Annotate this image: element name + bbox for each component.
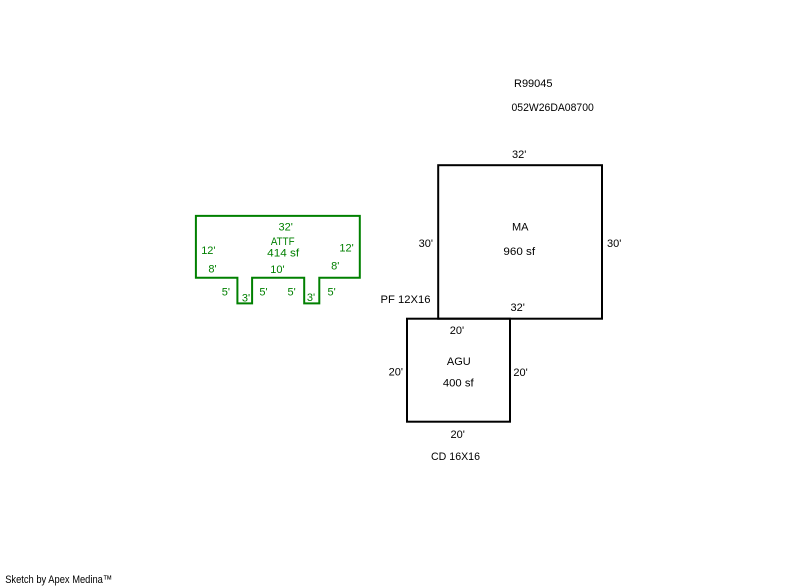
svg-text:Sketch by Apex Medina™: Sketch by Apex Medina™ (5, 574, 112, 586)
svg-text:3': 3' (307, 292, 315, 304)
svg-text:8': 8' (331, 261, 339, 273)
svg-text:20': 20' (389, 366, 403, 378)
svg-text:ATTF: ATTF (271, 236, 295, 248)
svg-text:30': 30' (419, 238, 433, 250)
svg-text:5': 5' (222, 286, 230, 298)
svg-text:32': 32' (511, 302, 525, 314)
svg-text:400 sf: 400 sf (443, 377, 475, 389)
svg-text:MA: MA (512, 222, 529, 234)
ATTF building outline (comb shape with two bottom tabs) (196, 216, 360, 304)
svg-text:5': 5' (288, 286, 296, 298)
svg-text:CD 16X16: CD 16X16 (431, 451, 480, 463)
svg-text:960 sf: 960 sf (503, 246, 536, 258)
svg-text:PF 12X16: PF 12X16 (381, 294, 431, 306)
svg-text:R99045: R99045 (514, 78, 553, 90)
svg-text:414 sf: 414 sf (267, 247, 300, 259)
svg-text:20': 20' (513, 367, 527, 379)
svg-text:30': 30' (607, 238, 621, 250)
svg-text:20': 20' (450, 325, 464, 337)
svg-text:12': 12' (339, 243, 353, 255)
AGU building outline (407, 319, 510, 422)
svg-text:12': 12' (201, 245, 215, 257)
svg-text:3': 3' (242, 292, 250, 304)
svg-text:052W26DA08700: 052W26DA08700 (512, 102, 594, 114)
svg-text:10': 10' (270, 264, 284, 276)
svg-text:8': 8' (208, 263, 216, 275)
svg-text:AGU: AGU (447, 356, 471, 368)
MA building outline (438, 165, 602, 319)
svg-text:20': 20' (451, 429, 465, 441)
svg-text:5': 5' (259, 287, 267, 299)
svg-text:32': 32' (279, 222, 293, 234)
svg-text:5': 5' (328, 286, 336, 298)
svg-text:32': 32' (512, 149, 526, 161)
